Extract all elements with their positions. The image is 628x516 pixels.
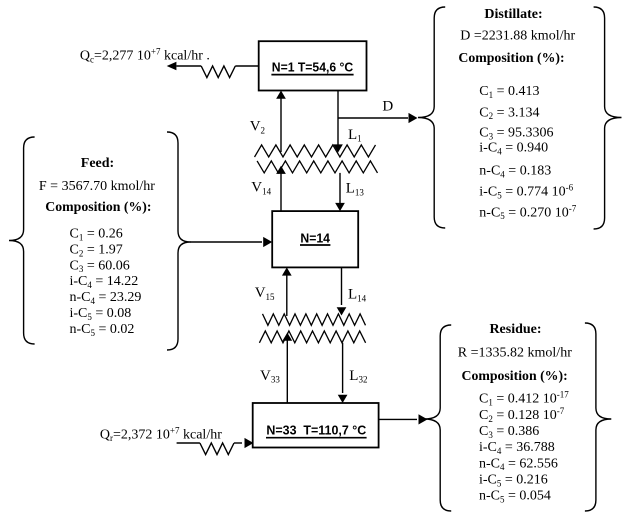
svg-text:N=33 T=110,7 °C: N=33 T=110,7 °C: [266, 422, 366, 437]
svg-text:D: D: [382, 99, 393, 115]
svg-text:C2​ = 3.134: C2​ = 3.134: [479, 105, 539, 121]
svg-text:i-C5​ = 0.08: i-C5​ = 0.08: [70, 306, 132, 322]
svg-text:i-C4​ = 0.940: i-C4​ = 0.940: [479, 141, 548, 157]
svg-text:n-C4​ = 23.29: n-C4​ = 23.29: [70, 290, 142, 306]
svg-text:i-C5​ = 0.216: i-C5​ = 0.216: [479, 473, 548, 489]
svg-text:V2​: V2​: [250, 119, 265, 136]
svg-text:Composition (%):: Composition (%):: [45, 199, 151, 215]
svg-text:i-C4​ = 36.788: i-C4​ = 36.788: [479, 440, 555, 456]
svg-text:L14​: L14​: [348, 286, 367, 303]
svg-text:C3​ = 0.386: C3​ = 0.386: [479, 424, 539, 440]
svg-text:V33​: V33​: [260, 368, 280, 385]
svg-text:Feed:: Feed:: [81, 156, 114, 171]
svg-text:R =1335.82 kmol/hr: R =1335.82 kmol/hr: [458, 345, 572, 360]
svg-text:V14​: V14​: [251, 180, 271, 197]
svg-text:i-C5​ = 0.774 10-6​: i-C5​ = 0.774 10-6​: [479, 183, 573, 201]
svg-text:C3​ = 60.06: C3​ = 60.06: [70, 258, 130, 274]
svg-text:C2​ = 1.97: C2​ = 1.97: [70, 242, 123, 258]
svg-text:n-C5​ = 0.054: n-C5​ = 0.054: [479, 489, 551, 505]
svg-text:L13​: L13​: [346, 180, 365, 197]
svg-text:Residue:: Residue:: [489, 322, 541, 337]
svg-text:n-C5​ = 0.270 10-7​: n-C5​ = 0.270 10-7​: [479, 203, 576, 221]
svg-text:L1​: L1​: [348, 127, 362, 144]
svg-text:N=1 T=54,6 °C: N=1 T=54,6 °C: [272, 59, 354, 74]
svg-text:C2​ = 0.128 10-7​: C2​ = 0.128 10-7​: [479, 406, 565, 424]
svg-text:Qr​=2,372 10+7​ kcal/hr: Qr​=2,372 10+7​ kcal/hr: [100, 425, 222, 443]
svg-text:D =2231.88 kmol/hr: D =2231.88 kmol/hr: [460, 29, 575, 44]
svg-text:V15​: V15​: [255, 285, 275, 302]
svg-text:C1​ = 0.26: C1​ = 0.26: [70, 227, 123, 243]
svg-text:N=14: N=14: [300, 231, 330, 246]
svg-text:Qc​=2,277 10+7​ kcal/hr .: Qc​=2,277 10+7​ kcal/hr .: [80, 47, 210, 65]
svg-text:C1​ = 0.413: C1​ = 0.413: [479, 84, 539, 100]
svg-text:i-C4​ = 14.22: i-C4​ = 14.22: [70, 274, 139, 290]
svg-text:Composition (%):: Composition (%):: [462, 368, 568, 384]
svg-text:Distillate:: Distillate:: [484, 7, 542, 22]
svg-text:C1​ = 0.412 10-17​: C1​ = 0.412 10-17​: [479, 389, 569, 407]
svg-text:L32​: L32​: [349, 368, 367, 385]
svg-text:Composition (%):: Composition (%):: [458, 50, 564, 66]
svg-text:C3​ = 95.3306: C3​ = 95.3306: [479, 125, 553, 141]
svg-text:n-C5​ = 0.02: n-C5​ = 0.02: [70, 322, 135, 338]
svg-text:n-C4​ = 62.556: n-C4​ = 62.556: [479, 456, 558, 472]
svg-text:n-C4​ = 0.183: n-C4​ = 0.183: [479, 164, 551, 180]
svg-text:F = 3567.70 kmol/hr: F = 3567.70 kmol/hr: [39, 179, 155, 194]
